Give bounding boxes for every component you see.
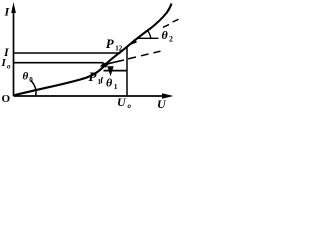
svg-text:1: 1	[98, 78, 102, 86]
svg-text:0: 0	[29, 76, 33, 84]
svg-text:12: 12	[115, 45, 123, 53]
svg-text:θ: θ	[106, 76, 113, 90]
junction ink blob at P1	[100, 63, 110, 68]
level line I2	[14, 52, 121, 54]
U axis arrowhead	[162, 93, 174, 99]
svg-text:I: I	[4, 5, 11, 19]
U axis	[14, 95, 165, 97]
I axis arrowhead	[11, 2, 16, 13]
svg-text:P: P	[106, 36, 115, 51]
svg-text:o: o	[128, 102, 132, 110]
svg-text:O: O	[2, 93, 11, 105]
svg-text:o: o	[7, 63, 11, 71]
svg-text:θ: θ	[23, 71, 29, 83]
I axis	[13, 10, 15, 96]
horizontal line of angle theta2	[138, 37, 159, 39]
vertical line at U0	[126, 47, 128, 97]
horizontal segment at P1	[104, 70, 128, 72]
dashed segment top right	[163, 19, 179, 27]
tangent-like line from junction P1 (solid part)	[106, 60, 124, 64]
svg-text:P: P	[89, 69, 98, 84]
theta0 arc near origin	[31, 81, 36, 96]
svg-text:1: 1	[114, 82, 118, 91]
dashed extension of that line	[128, 51, 161, 59]
arrowhead on curve at theta2 vertex	[130, 39, 137, 45]
svg-text:2: 2	[169, 35, 173, 44]
level line I0	[14, 62, 104, 64]
small arc mark of angle theta1	[101, 77, 102, 83]
curve (nonlinear characteristic from origin to top right)	[14, 4, 172, 96]
svg-text:U: U	[157, 97, 167, 110]
svg-text:U: U	[117, 95, 127, 109]
svg-text:θ: θ	[162, 28, 169, 42]
svg-text:I: I	[1, 57, 7, 69]
arc of angle theta2	[147, 31, 151, 39]
down arrowhead at P1	[107, 66, 113, 76]
